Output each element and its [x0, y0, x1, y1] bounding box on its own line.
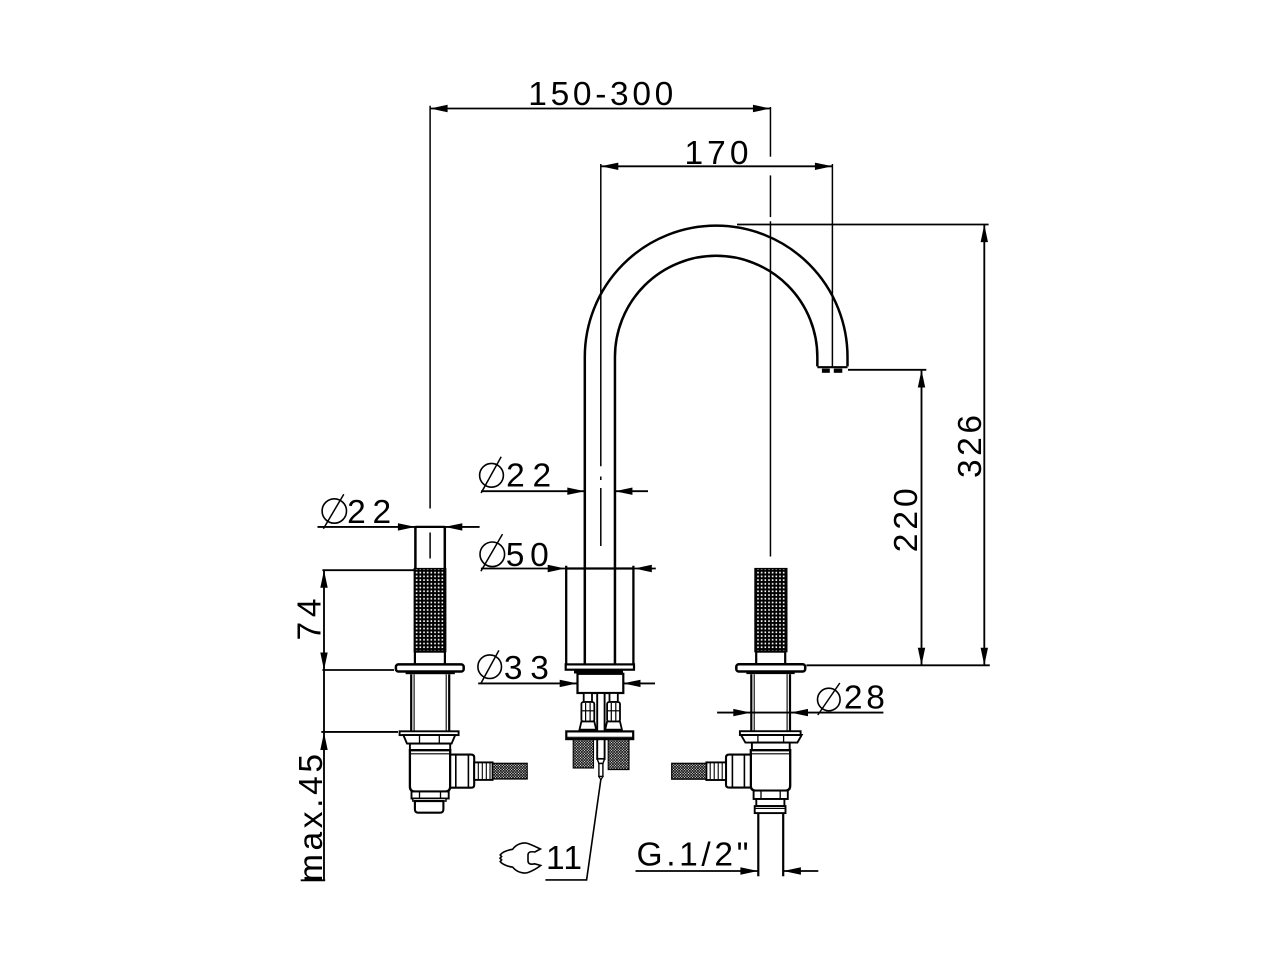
svg-text:11: 11	[546, 840, 582, 877]
svg-text:28: 28	[844, 680, 885, 717]
svg-text:G.1/2": G.1/2"	[637, 836, 749, 873]
svg-text:33: 33	[504, 650, 549, 687]
svg-text:22: 22	[347, 494, 391, 531]
svg-text:max.45: max.45	[293, 754, 330, 882]
svg-text:220: 220	[888, 488, 925, 552]
svg-text:150-300: 150-300	[528, 76, 673, 113]
svg-text:326: 326	[952, 415, 989, 478]
svg-text:22: 22	[506, 458, 551, 495]
svg-text:170: 170	[685, 135, 749, 172]
svg-text:74: 74	[292, 599, 329, 641]
